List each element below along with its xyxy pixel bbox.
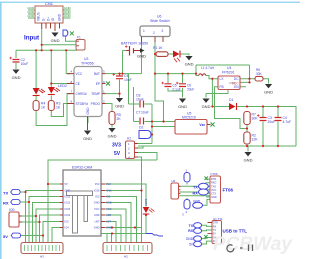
svg-text:GND: GND	[65, 189, 71, 193]
svg-text:VCC: VCC	[76, 72, 83, 76]
svg-text:Input: Input	[24, 35, 39, 42]
svg-text:H2: H2	[124, 255, 128, 259]
svg-text:GND: GND	[27, 14, 35, 18]
svg-text:PROG: PROG	[91, 102, 101, 106]
svg-text:IO16: IO16	[106, 189, 112, 193]
svg-text:C7: C7	[136, 111, 140, 115]
svg-text:4.7uF: 4.7uF	[283, 120, 292, 124]
svg-text:H3: H3	[40, 255, 44, 259]
svg-text:H3: H3	[172, 179, 176, 183]
svg-text:TX: TX	[193, 185, 198, 189]
svg-text:30K: 30K	[256, 72, 263, 76]
svg-text:10uF: 10uF	[21, 62, 29, 66]
svg-text:20uF: 20uF	[268, 120, 276, 124]
svg-text:USB to TTL: USB to TTL	[223, 229, 248, 234]
svg-text:CHRG#: CHRG#	[76, 92, 87, 96]
svg-text:U0T: U0T	[106, 220, 111, 224]
svg-text:5V: 5V	[3, 234, 8, 239]
svg-text:10uF: 10uF	[124, 78, 132, 82]
svg-text:TEMP: TEMP	[91, 92, 100, 96]
svg-text:VBUS: VBUS	[37, 12, 41, 21]
svg-text:FT06: FT06	[223, 188, 234, 193]
svg-text:U3: U3	[84, 57, 88, 61]
svg-text:GND: GND	[64, 14, 72, 18]
svg-text:IO12: IO12	[65, 195, 71, 199]
svg-text:3V3: 3V3	[95, 182, 100, 186]
svg-text:Slide Switch: Slide Switch	[150, 19, 170, 23]
svg-text:FT06: FT06	[211, 172, 218, 176]
svg-text:FB: FB	[220, 85, 224, 89]
svg-text:IO0: IO0	[95, 195, 100, 199]
svg-text:RX: RX	[193, 192, 199, 196]
svg-text:U6: U6	[157, 15, 161, 19]
svg-text:D2: D2	[139, 126, 143, 130]
svg-text:1: 1	[143, 29, 145, 33]
svg-text:CE: CE	[76, 82, 80, 86]
svg-text:CN1: CN1	[45, 1, 54, 6]
svg-text:H1: H1	[127, 137, 131, 141]
svg-text:STDBY#: STDBY#	[76, 102, 89, 106]
svg-text:R1 1K: R1 1K	[153, 46, 163, 50]
svg-text:0.1uF: 0.1uF	[173, 88, 181, 92]
svg-text:GND: GND	[137, 54, 146, 59]
svg-text:RX: RX	[188, 229, 193, 233]
svg-text:GND: GND	[106, 226, 112, 230]
svg-text:10uF: 10uF	[141, 111, 149, 115]
svg-text:12K: 12K	[252, 138, 259, 142]
svg-text:BAT: BAT	[94, 72, 100, 76]
svg-text:RX: RX	[3, 201, 9, 206]
svg-text:GND: GND	[106, 201, 112, 205]
svg-text:GND: GND	[211, 196, 217, 199]
svg-text:GND: GND	[229, 81, 235, 85]
svg-text:IO4: IO4	[65, 226, 70, 230]
svg-text:Vxx: Vxx	[199, 123, 205, 127]
svg-text:GND: GND	[186, 237, 194, 241]
svg-text:TX: TX	[213, 229, 217, 232]
svg-text:TX: TX	[189, 224, 194, 228]
svg-text:3: 3	[162, 29, 164, 33]
svg-text:20uF: 20uF	[187, 88, 194, 92]
svg-text:TX: TX	[3, 191, 8, 196]
svg-text:DTR: DTR	[213, 222, 218, 225]
svg-text:MIC5219: MIC5219	[182, 116, 196, 120]
svg-text:EP: EP	[96, 82, 100, 86]
svg-text:5V: 5V	[65, 182, 68, 186]
svg-text:D1: D1	[229, 98, 233, 102]
svg-text:IO15: IO15	[65, 207, 71, 211]
svg-text:5V: 5V	[114, 151, 121, 157]
svg-text:RX: RX	[213, 225, 217, 228]
svg-text:VCC: VCC	[94, 207, 100, 211]
svg-text:EN: EN	[234, 85, 239, 89]
svg-text:L1 4.7uH: L1 4.7uH	[201, 66, 215, 70]
svg-text:FP6291: FP6291	[222, 71, 235, 75]
svg-text:RXD: RXD	[211, 182, 216, 185]
svg-text:GND: GND	[58, 13, 62, 21]
svg-text:U0R: U0R	[94, 213, 99, 217]
svg-text:VCC: VCC	[211, 189, 216, 192]
svg-text:3V3: 3V3	[106, 182, 111, 186]
svg-text:IO2: IO2	[65, 220, 70, 224]
svg-text:GND: GND	[86, 107, 90, 115]
svg-text:U0T: U0T	[95, 220, 100, 224]
svg-text:1K: 1K	[56, 106, 61, 110]
svg-text:IO14: IO14	[65, 213, 71, 217]
svg-text:GND: GND	[94, 201, 100, 205]
svg-text:BATTERY 18650: BATTERY 18650	[121, 42, 148, 46]
svg-text:VCC: VCC	[106, 207, 112, 211]
svg-text:F1: F1	[77, 36, 81, 40]
svg-text:DTR: DTR	[211, 178, 216, 181]
svg-text:IO0: IO0	[9, 208, 15, 212]
svg-text:U0R: U0R	[106, 213, 111, 217]
svg-text:1K: 1K	[41, 106, 46, 110]
svg-text:ESP32-CAM: ESP32-CAM	[72, 166, 92, 170]
svg-text:LED1: LED1	[144, 198, 148, 206]
svg-text:LED2: LED2	[58, 84, 67, 88]
svg-text:U4: U4	[227, 66, 231, 70]
svg-text:D+: D+	[47, 17, 51, 21]
svg-text:GND: GND	[94, 226, 100, 230]
svg-text:TP4056: TP4056	[81, 62, 94, 66]
svg-text:3V3: 3V3	[112, 143, 121, 149]
svg-text:IO0: IO0	[106, 195, 111, 199]
svg-text:2: 2	[153, 31, 155, 35]
svg-text:2K: 2K	[117, 117, 122, 121]
svg-text:IO16: IO16	[94, 189, 100, 193]
svg-text:IO13: IO13	[65, 201, 71, 205]
svg-text:30K: 30K	[252, 117, 259, 121]
svg-text:D-: D-	[42, 18, 46, 21]
